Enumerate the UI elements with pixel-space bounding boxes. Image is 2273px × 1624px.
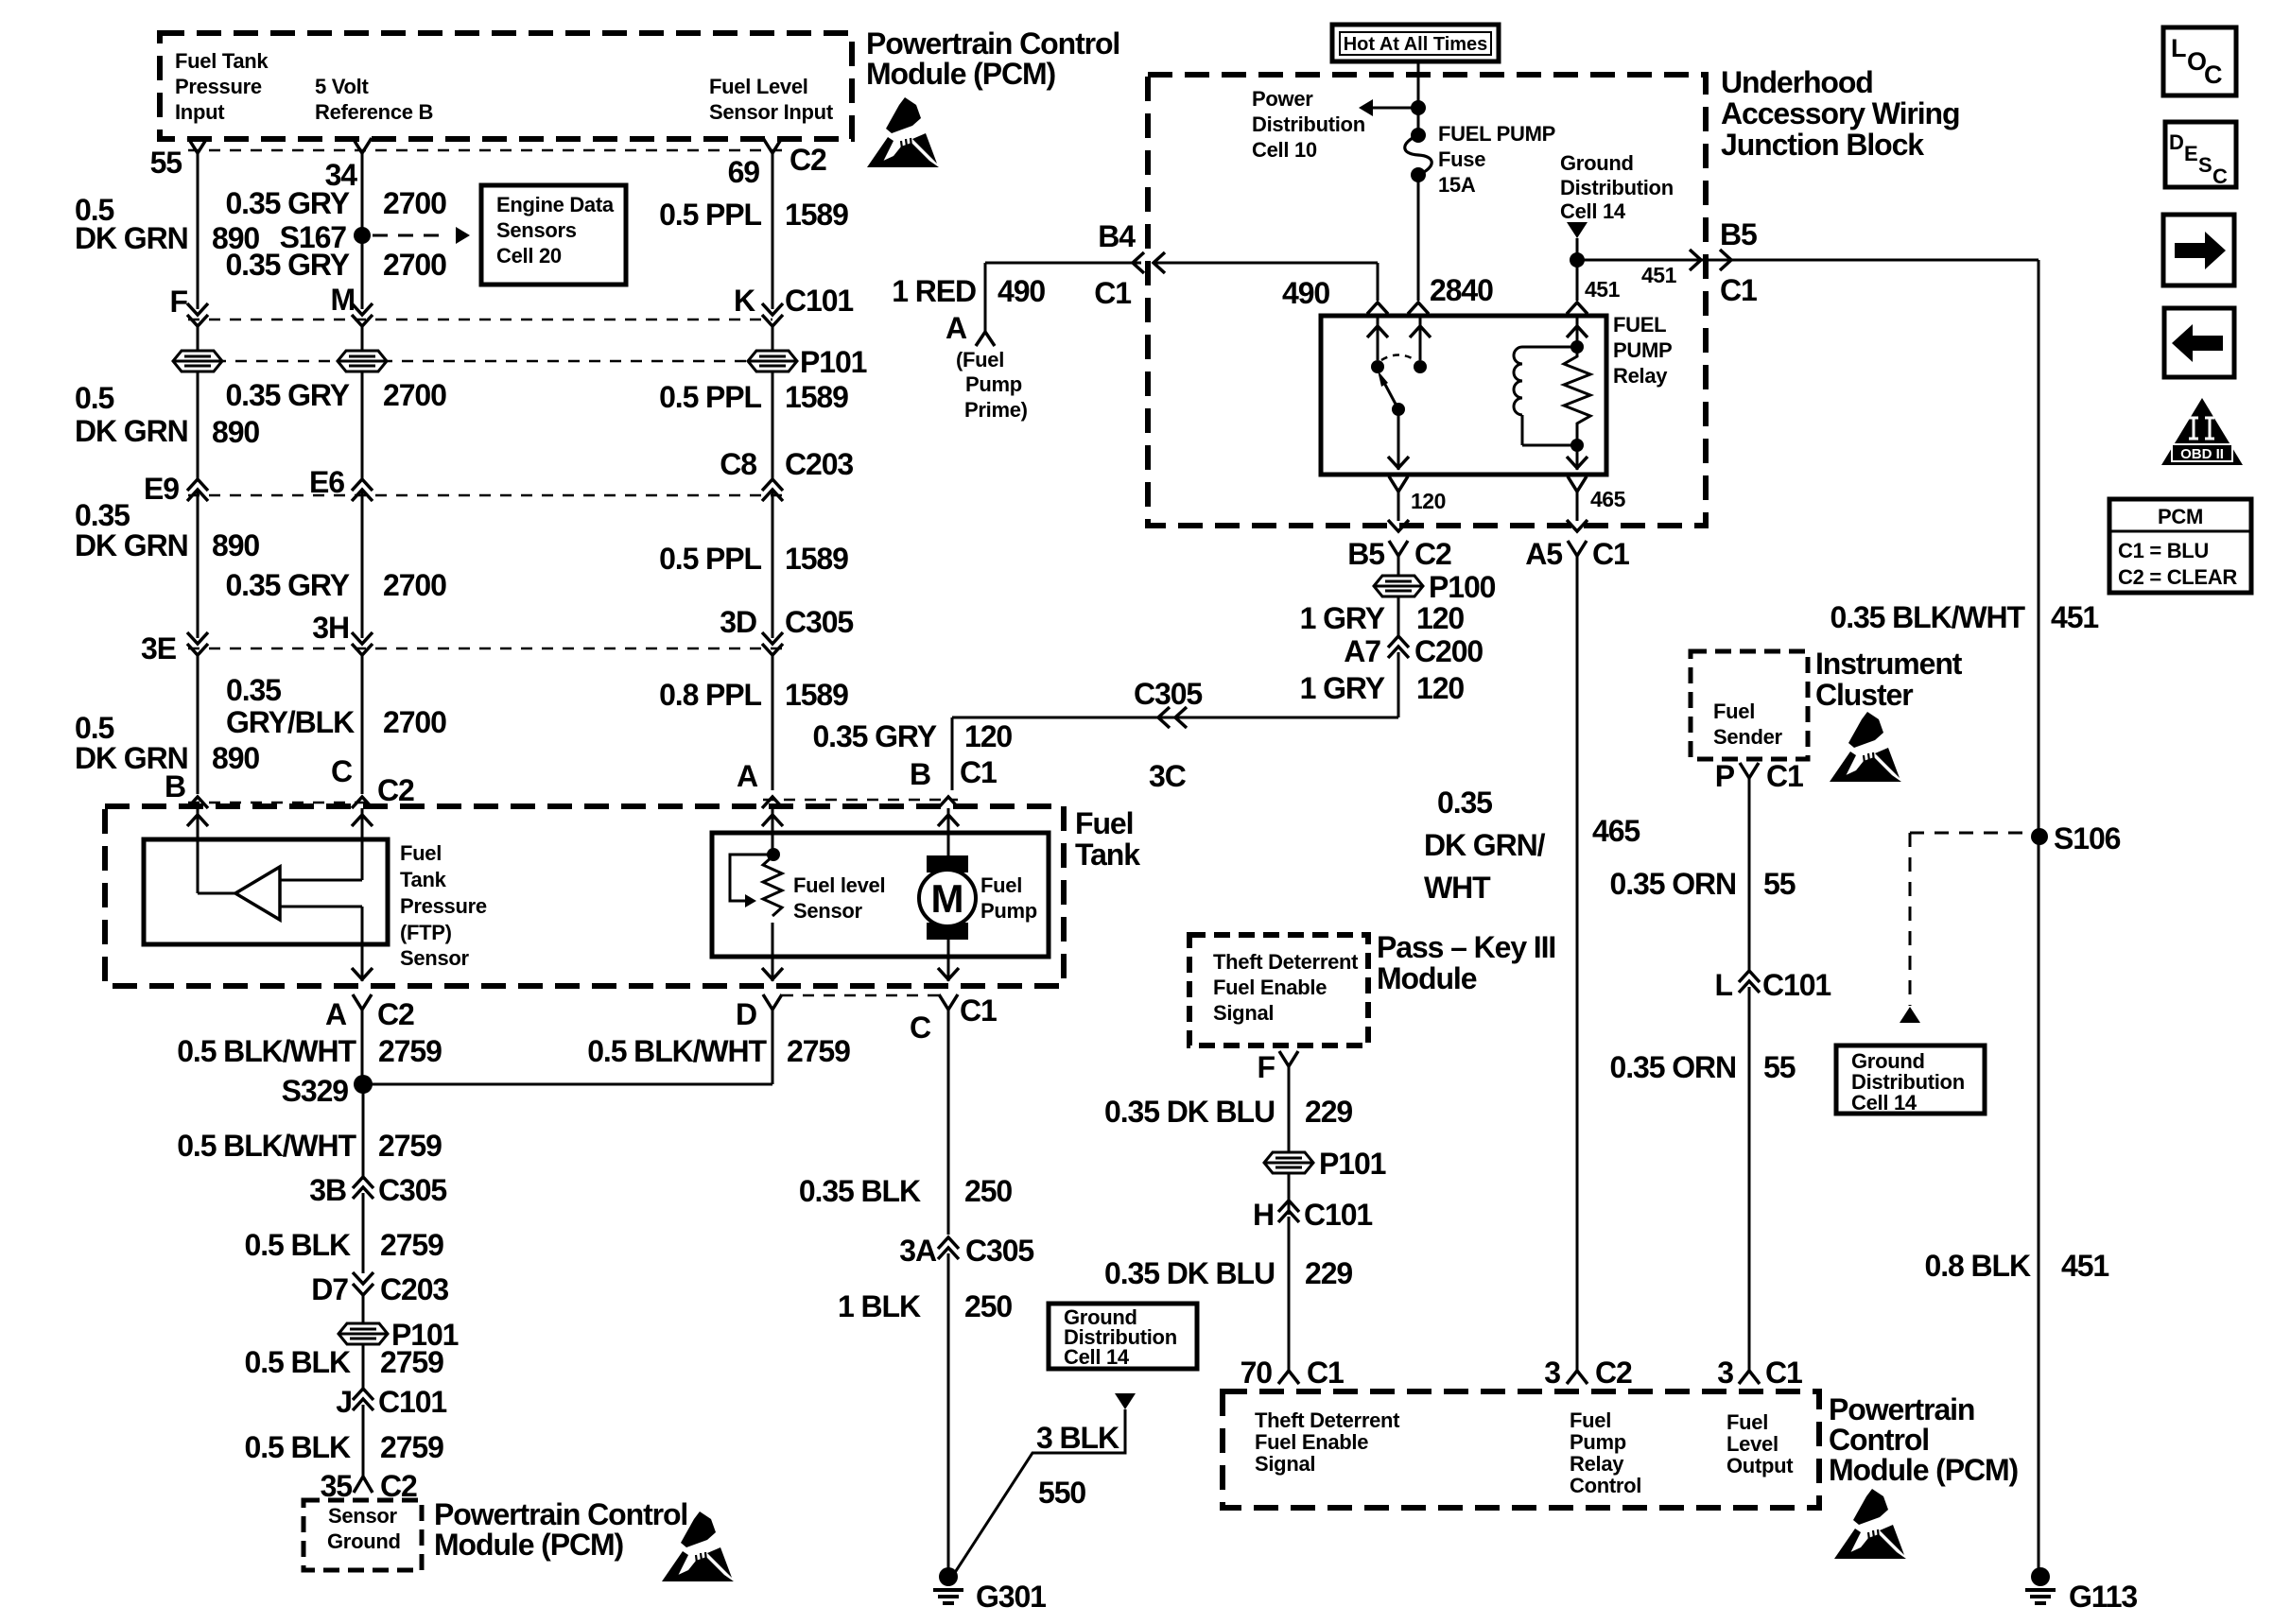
svg-text:Powertrain Control: Powertrain Control [434,1497,687,1531]
pin P C1 connector [1740,763,1759,778]
wire fuel level sensor to pin D [772,923,774,981]
svg-text:C200: C200 [1414,634,1483,668]
svg-text:0.8 PPL: 0.8 PPL [659,678,761,712]
wire 229 C101 to PCM pin 70 [1288,1217,1291,1371]
relay switch common dot [1392,403,1405,416]
svg-text:Signal: Signal [1255,1452,1315,1476]
module box Powertrain Control Module (PCM) bottom [1223,1391,1819,1508]
grommet P101 lower [338,1323,388,1344]
svg-text:Engine Data: Engine Data [496,193,615,216]
svg-text:1589: 1589 [785,678,848,712]
pin D connector at fuel tank bottom [763,994,782,1010]
svg-text:Module (PCM): Module (PCM) [434,1528,624,1562]
svg-text:Hot At All Times: Hot At All Times [1344,34,1488,55]
svg-text:C101: C101 [378,1385,446,1419]
svg-text:55: 55 [1763,867,1796,901]
svg-text:Fuel: Fuel [1713,700,1755,723]
svg-text:D: D [736,997,756,1031]
svg-text:Instrument: Instrument [1815,647,1963,681]
wire battery feed into junction block [1417,61,1420,135]
component box fuel level sensor / fuel pump inner box [712,833,1049,957]
wire 250 pin C to C305 [947,1010,950,1235]
svg-text:C1: C1 [1592,537,1629,571]
pin A fuel pump prime connector [976,332,995,346]
wire 120 P100 to C200 [1397,596,1400,636]
relay contact 30 arrow [1377,316,1379,360]
svg-text:L: L [1715,968,1733,1002]
svg-text:Fuel: Fuel [400,841,442,865]
svg-text:0.35 ORN: 0.35 ORN [1610,867,1736,901]
svg-text:3: 3 [1544,1356,1560,1390]
svg-text:B5: B5 [1347,537,1384,571]
svg-text:C305: C305 [785,605,853,639]
wire 55 fuel sender to C101 [1748,778,1751,972]
pin A5 C1 connector [1568,541,1587,556]
svg-text:C8: C8 [720,447,756,481]
connector row C203 dashed line [188,494,785,497]
svg-text:C1: C1 [1720,273,1757,307]
svg-text:0.5 BLK: 0.5 BLK [245,1345,351,1379]
svg-text:OBD II: OBD II [2180,446,2224,462]
wire 465 exits junction block [1567,520,1588,531]
svg-text:2759: 2759 [380,1430,443,1464]
svg-text:250: 250 [964,1289,1012,1323]
reference box Ground Distribution Cell 14 middle [1049,1304,1197,1369]
fuel level sensor wiper arm [730,855,773,901]
svg-text:0.35 GRY: 0.35 GRY [225,186,349,220]
svg-text:2759: 2759 [378,1034,442,1068]
svg-text:C101: C101 [1762,968,1831,1002]
svg-text:P101: P101 [800,345,867,379]
svg-text:0.5 BLK: 0.5 BLK [245,1228,351,1262]
svg-text:G301: G301 [976,1580,1046,1614]
junction dot 451 [1570,252,1585,268]
pin 3 C2 fuel pump relay control [1567,1371,1588,1384]
wire 2759 S329 to D pin of fuel tank [363,1083,772,1086]
legend right arrow box [2163,215,2234,285]
wire 2759 pin A to S329 [361,1010,364,1084]
connector C101 crossing K [762,303,783,315]
wire 2700 segment C203 to C305 [361,490,364,638]
wire FTP sensor output to pin A [361,907,364,981]
pin F connector [1279,1051,1298,1066]
connector C305 crossing 3C on horizontal wire [1158,707,1170,728]
legend left arrow box [2164,308,2234,377]
svg-text:Fuel: Fuel [1726,1410,1768,1434]
svg-text:0.5 PPL: 0.5 PPL [659,198,761,232]
ground G301 [939,1567,958,1586]
svg-text:Sensor Input: Sensor Input [709,100,834,124]
svg-text:Control: Control [1829,1423,1929,1457]
relay coil wire top [1576,316,1579,347]
pin A connector at fuel tank bottom [353,994,372,1010]
svg-text:Cell 20: Cell 20 [496,244,562,268]
svg-text:Module: Module [1377,961,1477,995]
svg-text:C: C [2212,164,2228,188]
svg-text:Fuse: Fuse [1438,147,1485,171]
legend LOC box [2163,27,2236,95]
grommet P101 on wire 1589 [748,351,797,371]
svg-text:Input: Input [175,100,225,124]
wire 250 C305 to G301 [947,1253,950,1569]
svg-text:550: 550 [1038,1476,1085,1510]
svg-text:C305: C305 [378,1173,446,1207]
svg-text:M: M [330,283,355,317]
module box Fuel Tank [105,806,1064,986]
relay switch arm [1383,381,1398,409]
svg-text:250: 250 [964,1174,1012,1208]
FTP sensor internal wiring [198,892,235,895]
pin B connector at fuel tank top [938,797,959,808]
svg-text:PUMP: PUMP [1613,338,1672,362]
svg-text:490: 490 [1282,276,1329,310]
svg-text:Powertrain: Powertrain [1829,1392,1974,1426]
pin 120 connector below relay [1389,476,1408,492]
svg-text:0.5 PPL: 0.5 PPL [659,380,761,414]
svg-text:3C: 3C [1149,759,1187,793]
pin 70 C1 connector [1278,1371,1299,1384]
svg-text:E6: E6 [309,465,344,499]
svg-text:F: F [1258,1050,1275,1084]
svg-text:PCM: PCM [2158,505,2203,528]
wire 465 down to PCM [1576,556,1579,1371]
wire 2759 C203 to P101 [362,1295,365,1323]
svg-text:Distribution: Distribution [1560,176,1674,199]
svg-text:Fuel level: Fuel level [793,873,885,897]
svg-text:C203: C203 [785,447,853,481]
svg-text:2700: 2700 [383,705,446,739]
ground distribution pointer triangle [1567,222,1588,238]
svg-text:Underhood: Underhood [1721,65,1873,99]
wire 2700 inside fuel tank to FTP sensor [361,808,364,880]
svg-text:Theft Deterrent: Theft Deterrent [1255,1408,1400,1432]
svg-text:0.5 BLK: 0.5 BLK [245,1430,351,1464]
svg-text:S: S [2198,153,2212,177]
svg-text:0.8 BLK: 0.8 BLK [1925,1249,2031,1283]
svg-text:B4: B4 [1098,219,1136,253]
connector C305 crossing 3D [762,632,783,644]
svg-text:Cell 14: Cell 14 [1064,1345,1130,1369]
svg-text:3A: 3A [899,1234,937,1268]
grommet P101 on wire 890 [173,351,222,371]
wire 2700 segment P101 to C203 [361,371,364,479]
svg-text:0.35 GRY: 0.35 GRY [225,378,349,412]
svg-text:K: K [734,284,755,318]
svg-text:0.5: 0.5 [75,711,113,745]
wire 1589 inside fuel tank to fuel level sensor [772,808,774,855]
svg-text:0.35: 0.35 [1437,786,1492,820]
legend PCM connector color box [2109,499,2251,593]
svg-text:S106: S106 [2054,821,2121,855]
svg-text:Sensors: Sensors [496,218,577,242]
svg-text:A: A [737,759,758,793]
relay contact dot left [1371,360,1384,373]
svg-text:G113: G113 [2069,1580,2137,1614]
svg-text:C305: C305 [965,1234,1033,1268]
ESD symbol top-left PCM [867,97,939,167]
wire 120 horizontal to fuel tank [952,717,1398,719]
svg-text:Module (PCM): Module (PCM) [1829,1453,2019,1487]
svg-text:1589: 1589 [785,542,848,576]
wire 1589 segment P101 to C203 [772,371,774,479]
wire fuel pump to pin C bottom [947,940,950,981]
fuel level sensor resistor [767,848,780,861]
svg-text:0.35 DK BLU: 0.35 DK BLU [1104,1095,1275,1129]
svg-text:A7: A7 [1344,634,1380,668]
svg-text:229: 229 [1305,1256,1352,1290]
svg-text:C203: C203 [380,1272,448,1306]
svg-text:0.35 DK BLU: 0.35 DK BLU [1104,1256,1275,1290]
wire 890 segment C101 to P101 [197,326,200,351]
svg-text:3H: 3H [312,611,349,645]
svg-text:C2: C2 [377,773,414,807]
svg-text:Pass – Key III: Pass – Key III [1377,930,1555,964]
svg-text:(Fuel: (Fuel [956,348,1004,371]
svg-text:WHT: WHT [1424,871,1491,905]
wire 2700 segment C305 to fuel tank [361,655,364,794]
svg-text:C1 = BLU: C1 = BLU [2118,539,2209,562]
connector C203 crossing E6 [352,479,373,491]
svg-text:890: 890 [212,741,259,775]
wire 1589 segment C101 to P101 [772,326,774,351]
ground G113 [2031,1567,2050,1586]
relay coil wire down [1576,445,1579,470]
pin connector 490 at relay [1367,302,1388,314]
svg-text:C: C [2204,60,2223,89]
pin 3 C1 fuel level output connector [1739,1371,1760,1384]
svg-text:Distribution: Distribution [1252,112,1365,136]
svg-text:FUEL PUMP: FUEL PUMP [1438,122,1555,146]
svg-text:J: J [336,1385,352,1419]
svg-text:Pump: Pump [965,372,1022,396]
svg-text:3B: 3B [309,1173,346,1207]
svg-text:0.35 GRY: 0.35 GRY [225,568,349,602]
svg-text:C2 = CLEAR: C2 = CLEAR [2118,565,2237,589]
svg-text:0.5 BLK/WHT: 0.5 BLK/WHT [177,1034,356,1068]
svg-text:Pressure: Pressure [175,75,262,98]
svg-text:1589: 1589 [785,198,848,232]
wire 890 segment C203 to C305 [197,490,200,638]
svg-text:C1: C1 [960,993,997,1028]
svg-text:A: A [325,997,347,1031]
svg-text:C: C [331,754,353,788]
wire 1589 segment C305 to fuel tank [772,655,774,790]
connector row P101 dashed line [173,360,752,363]
legend DESC box [2165,122,2236,187]
wire 55 C101 to PCM pin 3 [1748,987,1751,1371]
svg-text:3: 3 [1717,1356,1733,1390]
svg-text:2700: 2700 [383,186,446,220]
connector row C2 fuel tank dashed line [188,802,372,804]
svg-text:Ground: Ground [1560,151,1634,175]
wire 120 to P100 [1397,556,1400,576]
svg-text:DK GRN: DK GRN [75,414,188,448]
relay switch arc dashed [1381,355,1415,361]
svg-text:451: 451 [2061,1249,2108,1283]
connector row C2 dashed line [188,149,785,152]
splice S329 [354,1075,373,1094]
relay common wire down [1397,409,1400,470]
pin 465 connector below relay [1568,476,1587,492]
pin C connector at fuel tank bottom [939,994,958,1010]
dashed ground branch from S106 [1910,832,2031,835]
svg-text:465: 465 [1592,814,1640,848]
svg-text:2759: 2759 [787,1034,850,1068]
svg-text:Tank: Tank [400,868,447,891]
svg-text:Powertrain Control: Powertrain Control [866,26,1119,60]
svg-text:Module (PCM): Module (PCM) [866,57,1056,91]
junction dot power distribution tap [1411,100,1426,115]
pin B4 connector chevron [1133,252,1144,273]
splice S106 [2031,828,2048,845]
pin connector 2840 at relay [1408,302,1429,314]
grommet P101 on wire 2700 [338,351,387,371]
svg-text:Tank: Tank [1075,838,1140,872]
wire 451 right vertical [1731,259,2039,262]
svg-text:C2: C2 [377,997,414,1031]
svg-text:P101: P101 [1319,1147,1386,1181]
wire 490 inside junction block [1154,252,1165,273]
svg-text:Relay: Relay [1570,1452,1624,1476]
relay contact dot right [1414,360,1427,373]
svg-text:0.35: 0.35 [226,673,281,707]
svg-text:Pump: Pump [1570,1430,1626,1454]
svg-text:451: 451 [1585,277,1621,302]
module box Instrument Cluster Fuel Sender [1691,651,1808,759]
wire 2700 segment C101 to P101 [361,326,364,351]
arrow to Power Distribution Cell 10 [1373,107,1418,110]
connector row C1 fuel tank dashed line [763,799,958,802]
svg-text:Cell 14: Cell 14 [1560,199,1626,223]
ground distribution pointer triangle right [1900,1007,1920,1023]
svg-text:15A: 15A [1438,173,1476,197]
FTP sensor internal amplifier triangle [235,867,280,920]
wire 890 segment P101 to C203 [197,371,200,479]
svg-text:B: B [165,769,185,803]
relay coil [1522,346,1577,349]
svg-text:2759: 2759 [380,1345,443,1379]
dashed reference arrow to Engine Data Sensors [373,234,448,237]
wire 2759 C101 to PCM pin 35 [362,1405,365,1477]
wire 1589 segment PCM to C101 [772,153,774,309]
svg-text:Pressure: Pressure [400,894,487,918]
svg-text:DK GRN: DK GRN [75,528,188,562]
wire 229 P101 to C101 [1288,1173,1291,1215]
ESD symbol instrument cluster [1830,712,1901,782]
svg-text:DK GRN/: DK GRN/ [1424,828,1546,862]
svg-text:2700: 2700 [383,568,446,602]
svg-text:DK GRN: DK GRN [75,221,188,255]
svg-text:3E: 3E [141,631,177,665]
svg-text:Signal: Signal [1213,1001,1274,1025]
svg-text:229: 229 [1305,1095,1352,1129]
svg-text:0.35 BLK/WHT: 0.35 BLK/WHT [1831,600,2026,634]
grommet P100 [1374,576,1423,596]
pin 69 connector [763,138,782,153]
svg-text:C1: C1 [1094,276,1131,310]
svg-text:Control: Control [1570,1474,1641,1497]
svg-text:1 RED: 1 RED [892,274,976,308]
relay resistor [1570,340,1584,354]
ESD symbol bottom-left PCM [662,1512,734,1581]
svg-text:Relay: Relay [1613,364,1668,388]
pin A connector at fuel tank [762,797,783,808]
svg-text:120: 120 [1416,601,1464,635]
svg-text:0.35 BLK: 0.35 BLK [799,1174,921,1208]
svg-text:120: 120 [964,719,1012,753]
splice S167 [354,227,371,244]
svg-text:Cell 14: Cell 14 [1851,1091,1917,1114]
legend OBD II triangle [2161,398,2243,465]
svg-text:D: D [2169,130,2184,154]
svg-text:C101: C101 [1304,1198,1372,1232]
svg-text:3D: 3D [720,605,756,639]
svg-text:890: 890 [212,415,259,449]
svg-text:F: F [170,285,188,319]
svg-text:S329: S329 [282,1074,349,1108]
svg-text:490: 490 [998,274,1045,308]
svg-text:55: 55 [1763,1050,1796,1084]
wire 2759 C305 to C203 [362,1193,365,1273]
wire 890 inside fuel tank to FTP sensor [197,808,200,893]
relay contact 87 arrow [1419,316,1422,360]
pin C connector at fuel tank [352,797,373,808]
svg-text:Accessory Wiring: Accessory Wiring [1721,96,1959,130]
component box FUEL PUMP Relay [1321,316,1606,475]
svg-text:P100: P100 [1429,570,1496,604]
wire 229 F to P101 [1288,1066,1291,1152]
svg-text:1589: 1589 [785,380,848,414]
svg-text:C: C [910,1011,931,1045]
svg-text:C101: C101 [785,284,853,318]
connector row C101 dashed line [188,319,772,321]
svg-text:Sensor: Sensor [400,946,470,970]
svg-text:C2: C2 [789,143,826,177]
svg-text:D7: D7 [311,1272,348,1306]
pin 35 connector [354,1477,373,1493]
power label box Hot At All Times [1332,25,1499,61]
module box Pass-Key III Theft Deterrent Fuel Enable Signal [1189,935,1368,1045]
svg-text:Level: Level [1726,1432,1778,1456]
wire 2840 fuse to relay [1417,175,1420,301]
svg-text:Reference B: Reference B [315,100,433,124]
svg-text:Fuel: Fuel [1075,806,1133,840]
connector row C1 bottom dashed line [782,994,939,997]
connector C101 crossing M [352,303,373,315]
module box Sensor Ground (PCM) [304,1500,422,1570]
svg-text:C2: C2 [1414,537,1451,571]
wire 2700 segment PCM to S167 [361,153,364,235]
component box Fuel Tank Pressure FTP Sensor [144,839,388,944]
svg-text:0.35 ORN: 0.35 ORN [1610,1050,1736,1084]
svg-text:0.35 GRY: 0.35 GRY [225,248,349,282]
pin 55 connector [188,138,207,153]
svg-text:0.5 BLK/WHT: 0.5 BLK/WHT [177,1129,356,1163]
svg-text:0.5: 0.5 [75,381,113,415]
wire 451 horizontal to junction block edge [1577,259,2039,262]
module box Underhood Accessory Wiring Junction Block [1148,75,1706,526]
svg-text:2759: 2759 [378,1129,442,1163]
wire fuel pump to pin B top [947,808,950,855]
reference box Engine Data Sensors Cell 20 [481,185,626,285]
connector C305 crossing 3H [352,632,373,644]
svg-text:C305: C305 [1134,677,1202,711]
wire 120 C200 to corner [1397,652,1400,717]
svg-text:B: B [910,757,930,791]
svg-text:3 BLK: 3 BLK [1036,1421,1119,1455]
svg-text:2700: 2700 [383,248,446,282]
wire 2759 S329 down to C305 [362,1084,365,1180]
